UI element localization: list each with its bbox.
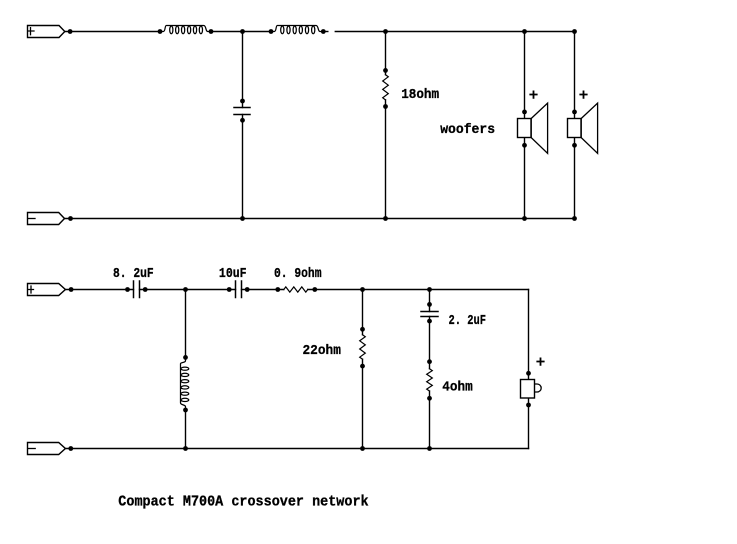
resistor R1 18ohm — [383, 75, 389, 100]
wire top: to right corner — [525, 31, 575, 33]
svg-text:Compact M700A crossover networ: Compact M700A crossover network — [118, 495, 369, 511]
wire: L3 down to bottom rail — [185, 410, 187, 449]
wire: right corner down to tweeter SP3 — [528, 290, 530, 381]
terminal J4 minus input (bottom circuit) — [28, 443, 66, 455]
plus mark SP2 — [580, 91, 586, 97]
wire top: J1 to L1 — [65, 31, 160, 33]
wire: node down to inductor L3 — [185, 290, 187, 358]
terminal J1 plus input (top circuit) — [28, 26, 65, 38]
speaker SP2 woofer — [568, 103, 598, 153]
node dots resistor R3 — [360, 327, 365, 369]
node dots inductor L3 — [183, 355, 188, 412]
node dots bottom rail (bottom circuit) — [68, 446, 432, 451]
wire top: L2 to node R1 (with small break) — [323, 31, 328, 33]
wire: node down to capacitor C4 — [429, 290, 431, 312]
terminal J3 plus input (bottom circuit) — [28, 284, 66, 296]
node dots capacitor C4 and resistor R4 — [427, 302, 432, 401]
wire: woofer SP1 vertical — [524, 32, 526, 120]
wire: C2 to C3 — [140, 289, 236, 291]
wire: C1 down to bottom rail — [242, 115, 244, 219]
node dots speaker SP3 — [526, 371, 531, 408]
wire: R2 to right corner — [308, 289, 529, 291]
svg-text:4ohm: 4ohm — [442, 380, 472, 396]
inductor L1 — [160, 26, 211, 34]
wire: C3 to R2 — [242, 289, 284, 291]
capacitor C2 8.2uF — [134, 281, 140, 298]
capacitor C3 10uF — [236, 281, 242, 298]
svg-text:10uF: 10uF — [219, 266, 247, 282]
node dots bottom rail (top circuit) — [68, 216, 577, 221]
wire: node down to capacitor C1 — [242, 32, 244, 108]
svg-text:woofers: woofers — [440, 122, 495, 138]
svg-text:8. 2uF: 8. 2uF — [113, 266, 154, 282]
wire: node down to resistor R1 — [385, 32, 387, 75]
wire: R4 down to bottom rail — [429, 391, 431, 448]
wire: J3 to C2 — [65, 289, 133, 291]
speaker SP1 woofer — [518, 103, 548, 153]
svg-text:18ohm: 18ohm — [401, 87, 439, 103]
node dots top rail (bottom circuit) — [69, 287, 432, 292]
wire: C4 to R4 — [429, 317, 431, 369]
wire: R1 down to bottom rail — [385, 100, 387, 219]
capacitor C4 2.2uF — [421, 312, 438, 317]
svg-text:0. 9ohm: 0. 9ohm — [274, 266, 322, 282]
plus mark SP3 — [537, 358, 543, 364]
node dots speaker SP1 — [522, 110, 527, 148]
terminal J2 minus input (top circuit) — [28, 213, 65, 225]
node dots resistor R1 — [383, 68, 388, 109]
resistor R4 4ohm — [427, 369, 433, 391]
capacitor C1 — [234, 108, 250, 115]
wire bottom rail (top circuit) — [65, 218, 575, 220]
wire: woofer SP2 vertical — [574, 32, 576, 120]
plus mark SP1 — [530, 91, 536, 97]
wire top: L1 to node C1 — [211, 31, 271, 33]
wire: node down to resistor R3 — [362, 290, 364, 335]
node dots top rail (top circuit) — [68, 29, 577, 34]
wire bottom rail (bottom circuit) — [65, 448, 528, 450]
speaker SP3 tweeter — [521, 380, 542, 399]
svg-text:22ohm: 22ohm — [303, 343, 341, 359]
node dots speaker SP2 — [572, 110, 577, 148]
wire: R3 down to bottom rail — [362, 359, 364, 448]
node dots capacitor C1 — [240, 99, 245, 123]
resistor R2 0.9ohm — [284, 287, 308, 292]
inductor L2 — [271, 26, 323, 34]
svg-text:2. 2uF: 2. 2uF — [449, 313, 487, 329]
resistor R3 22ohm — [360, 335, 366, 360]
inductor L3 — [181, 357, 189, 410]
